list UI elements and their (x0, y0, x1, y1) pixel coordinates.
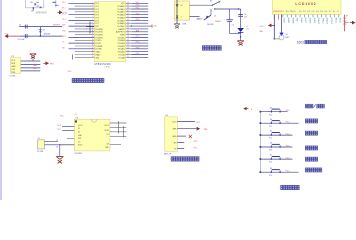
svg-text:P3.1: P3.1 (194, 148, 198, 150)
svg-text:P2.5/A13: P2.5/A13 (118, 42, 125, 45)
svg-text:RXD: RXD (11, 72, 16, 74)
svg-text:D1B7: D1B7 (304, 18, 306, 24)
svg-text:19: 19 (92, 53, 94, 55)
svg-text:14: 14 (92, 39, 94, 41)
svg-text:S8: S8 (270, 168, 272, 170)
svg-text:P2.0/A8: P2.0/A8 (119, 56, 125, 59)
svg-text:D3B9: D3B9 (313, 18, 315, 24)
svg-text:22: 22 (127, 53, 129, 55)
svg-text:P3.0: P3.0 (194, 141, 198, 143)
svg-text:S6: S6 (270, 143, 272, 145)
svg-text:D1: D1 (43, 30, 45, 32)
svg-text:39: 39 (127, 5, 129, 7)
svg-text:VCC: VCC (172, 122, 177, 124)
svg-text:RST: RST (78, 138, 81, 140)
svg-text:B: B (251, 109, 252, 111)
svg-text:30: 30 (127, 30, 129, 32)
svg-text:23: 23 (127, 50, 129, 52)
svg-text:P0.1: P0.1 (136, 8, 140, 10)
svg-text:AB14: AB14 (334, 18, 337, 24)
svg-text:R9: R9 (346, 15, 348, 17)
svg-text:P1.4: P1.4 (62, 13, 65, 15)
svg-text:D2B8: D2B8 (309, 18, 311, 24)
svg-text:L2: L2 (246, 26, 248, 28)
svg-text:P1.2: P1.2 (95, 9, 99, 11)
svg-text:P1.3: P1.3 (269, 150, 272, 152)
svg-text:TXD: TXD (11, 69, 15, 71)
svg-text:P2.6/A14: P2.6/A14 (118, 39, 125, 42)
svg-text:40: 40 (127, 2, 129, 4)
svg-text:38: 38 (127, 8, 129, 10)
svg-text:S4: S4 (270, 119, 272, 121)
svg-text:P1.3: P1.3 (286, 145, 290, 147)
svg-text:35: 35 (127, 16, 129, 18)
svg-text:24: 24 (127, 47, 129, 49)
svg-text:D7B13: D7B13 (330, 18, 332, 25)
svg-text:VCC1: VCC1 (104, 125, 109, 127)
svg-text:32.768: 32.768 (37, 151, 43, 153)
svg-text:P3.1/TXD: P3.1/TXD (95, 32, 103, 34)
svg-text:10: 10 (92, 28, 94, 30)
svg-text:EA/VPP: EA/VPP (119, 28, 126, 31)
svg-text:C2 10uF: C2 10uF (17, 39, 25, 41)
svg-text:26: 26 (127, 42, 129, 44)
svg-text:P1.0: P1.0 (269, 114, 272, 116)
svg-text:P1.0: P1.0 (95, 3, 99, 5)
svg-text:P2.1/A9: P2.1/A9 (119, 53, 125, 56)
svg-text:RST/P9: RST/P9 (53, 25, 60, 27)
svg-text:P1.4: P1.4 (269, 162, 272, 164)
svg-text:P1.0: P1.0 (286, 110, 290, 112)
svg-text:RSB3: RSB3 (287, 18, 289, 24)
svg-text:RST: RST (95, 26, 98, 28)
svg-text:T1: T1 (62, 42, 64, 44)
svg-text:P2.7: P2.7 (136, 36, 140, 38)
svg-text:33: 33 (127, 22, 129, 24)
svg-text:CON5: CON5 (10, 75, 17, 77)
svg-text:31: 31 (127, 28, 129, 30)
svg-text:P1.7: P1.7 (95, 23, 99, 25)
svg-text:P0.1/AD1: P0.1/AD1 (117, 8, 124, 11)
svg-text:P2.2/A10: P2.2/A10 (118, 51, 125, 54)
svg-text:P3.1: P3.1 (68, 71, 72, 73)
svg-text:C9: C9 (75, 114, 77, 116)
svg-text:DIP40: DIP40 (105, 67, 110, 69)
svg-text:1602: 1602 (297, 41, 305, 45)
svg-text:P1.6: P1.6 (62, 19, 65, 21)
svg-text:PSEN: PSEN (120, 35, 125, 37)
svg-text:S7: S7 (270, 155, 272, 157)
svg-text:P1.3: P1.3 (95, 12, 99, 14)
svg-text:P3.7/RD: P3.7/RD (95, 49, 102, 51)
svg-text:VCC: VCC (260, 26, 265, 28)
svg-text:P1.2: P1.2 (286, 133, 290, 135)
svg-text:Q1: Q1 (285, 34, 288, 36)
svg-text:P1.6: P1.6 (95, 20, 99, 22)
svg-text:P0.5/AD5: P0.5/AD5 (117, 19, 124, 22)
svg-text:P1.5: P1.5 (269, 175, 272, 177)
svg-text:1N4148: 1N4148 (44, 33, 51, 35)
svg-text:S2: S2 (210, 1, 212, 3)
svg-text:X: X (176, 14, 179, 19)
svg-text:P0.2/AD2: P0.2/AD2 (117, 11, 124, 14)
svg-text:LCD1602: LCD1602 (295, 2, 316, 6)
svg-text:D2: D2 (214, 15, 216, 17)
svg-text:P2.3: P2.3 (136, 47, 140, 49)
svg-text:ON/OFF: ON/OFF (207, 24, 215, 26)
svg-text:104: 104 (244, 16, 247, 18)
svg-text:KB15: KB15 (339, 18, 341, 24)
svg-text:C1: C1 (19, 25, 21, 27)
svg-text:17: 17 (92, 47, 94, 49)
svg-text:P1.4: P1.4 (95, 15, 99, 17)
svg-text:P1.1: P1.1 (95, 6, 99, 8)
svg-text:27: 27 (127, 39, 129, 41)
svg-text:Y2: Y2 (38, 138, 40, 140)
svg-text:P0.3: P0.3 (136, 13, 140, 15)
svg-text:28: 28 (127, 36, 129, 38)
svg-text:AT89C52RC: AT89C52RC (94, 62, 111, 66)
svg-text:VCC: VCC (196, 122, 201, 124)
svg-text:XTAL1: XTAL1 (95, 53, 100, 56)
svg-text:INT1: INT1 (62, 36, 66, 38)
svg-text:P0.5: P0.5 (136, 19, 140, 21)
svg-text:P3.5/T1: P3.5/T1 (95, 43, 101, 45)
svg-text:VCC2: VCC2 (78, 125, 83, 127)
svg-text:P3.0/RXD: P3.0/RXD (95, 29, 103, 31)
svg-text:RST: RST (62, 25, 65, 27)
svg-text:X2: X2 (56, 147, 58, 149)
svg-text:D0B6: D0B6 (300, 18, 302, 24)
svg-text:20: 20 (92, 56, 94, 58)
svg-text:D4B10: D4B10 (317, 18, 319, 25)
svg-text:36: 36 (127, 13, 129, 15)
svg-text:21: 21 (127, 56, 129, 58)
svg-text:1: 1 (181, 17, 182, 19)
svg-text:X2: X2 (78, 132, 80, 134)
svg-text:D5B11: D5B11 (321, 18, 323, 25)
svg-text:P0.3/AD3: P0.3/AD3 (117, 14, 124, 17)
svg-text:ALE/PROG: ALE/PROG (116, 31, 125, 34)
svg-text:P1.2: P1.2 (62, 8, 65, 10)
svg-text:34: 34 (127, 19, 129, 21)
svg-text:P1.1: P1.1 (286, 122, 290, 124)
svg-text:P3.4/T0: P3.4/T0 (95, 40, 101, 42)
svg-text:P3.6/WR: P3.6/WR (95, 46, 103, 48)
svg-text:29: 29 (127, 33, 129, 35)
svg-text:P1.5: P1.5 (95, 17, 99, 19)
svg-text:V: V (176, 3, 179, 8)
svg-text:P1.0: P1.0 (62, 2, 65, 4)
svg-text:13: 13 (92, 36, 94, 38)
svg-text:P0.0/AD0: P0.0/AD0 (117, 5, 124, 8)
svg-text:P1.4: P1.4 (286, 157, 290, 159)
svg-text:9012: 9012 (285, 37, 289, 39)
svg-text:RS: RS (286, 11, 290, 13)
svg-text:P2.4/A12: P2.4/A12 (118, 45, 125, 48)
svg-text:1k: 1k (55, 5, 57, 7)
svg-text:37: 37 (127, 10, 129, 12)
svg-text:16: 16 (92, 45, 94, 47)
svg-text:P0.7/AD7: P0.7/AD7 (117, 25, 124, 28)
svg-text:11: 11 (92, 30, 94, 32)
svg-text:P0.0: P0.0 (136, 5, 140, 7)
svg-text:S5: S5 (270, 131, 272, 133)
svg-text:X1: X1 (78, 128, 80, 130)
svg-text:RWB4: RWB4 (291, 18, 293, 25)
svg-text:IN4007: IN4007 (197, 19, 203, 21)
svg-text:18: 18 (92, 50, 94, 52)
svg-text:P0.6/AD6: P0.6/AD6 (117, 22, 124, 25)
svg-text:P1.1: P1.1 (269, 126, 272, 128)
svg-text:P2.3/A11: P2.3/A11 (118, 48, 125, 51)
svg-text:P2.7/A15: P2.7/A15 (118, 36, 125, 39)
svg-text:P0.4/AD4: P0.4/AD4 (117, 16, 124, 19)
svg-text:B1: B1 (31, 11, 33, 13)
svg-text:15: 15 (92, 42, 94, 44)
svg-text:GND: GND (172, 136, 177, 138)
svg-text:P3.2/INT0: P3.2/INT0 (95, 35, 103, 37)
svg-text:P1.7: P1.7 (57, 129, 61, 131)
svg-text:D6B12: D6B12 (326, 18, 328, 25)
svg-text:DS1302: DS1302 (75, 153, 83, 155)
svg-text:GND: GND (11, 66, 16, 68)
svg-text:MP3-TF: MP3-TF (164, 154, 172, 156)
svg-text:25: 25 (127, 45, 129, 47)
svg-text:SPEAKER: SPEAKER (36, 11, 47, 14)
svg-text:32: 32 (127, 25, 129, 27)
svg-text:P1.2: P1.2 (269, 138, 272, 140)
svg-text:C5: C5 (232, 24, 234, 26)
svg-text:GND: GND (33, 65, 38, 67)
svg-text:X1: X1 (56, 140, 58, 142)
svg-text:VCC: VCC (60, 116, 65, 118)
svg-text:P2.1: P2.1 (136, 53, 140, 55)
svg-text:LS1: LS1 (30, 2, 33, 4)
svg-text:P2.5: P2.5 (136, 42, 140, 44)
svg-text:12: 12 (92, 33, 94, 35)
svg-text:P1.6: P1.6 (57, 125, 61, 127)
svg-text:P3.3/INT1: P3.3/INT1 (95, 37, 103, 39)
svg-text:1N4007: 1N4007 (215, 21, 221, 23)
svg-text:XTAL2: XTAL2 (95, 51, 100, 54)
svg-text:P1.5: P1.5 (286, 171, 290, 173)
svg-text:S3: S3 (270, 107, 272, 109)
svg-text:VCC: VCC (11, 60, 16, 62)
